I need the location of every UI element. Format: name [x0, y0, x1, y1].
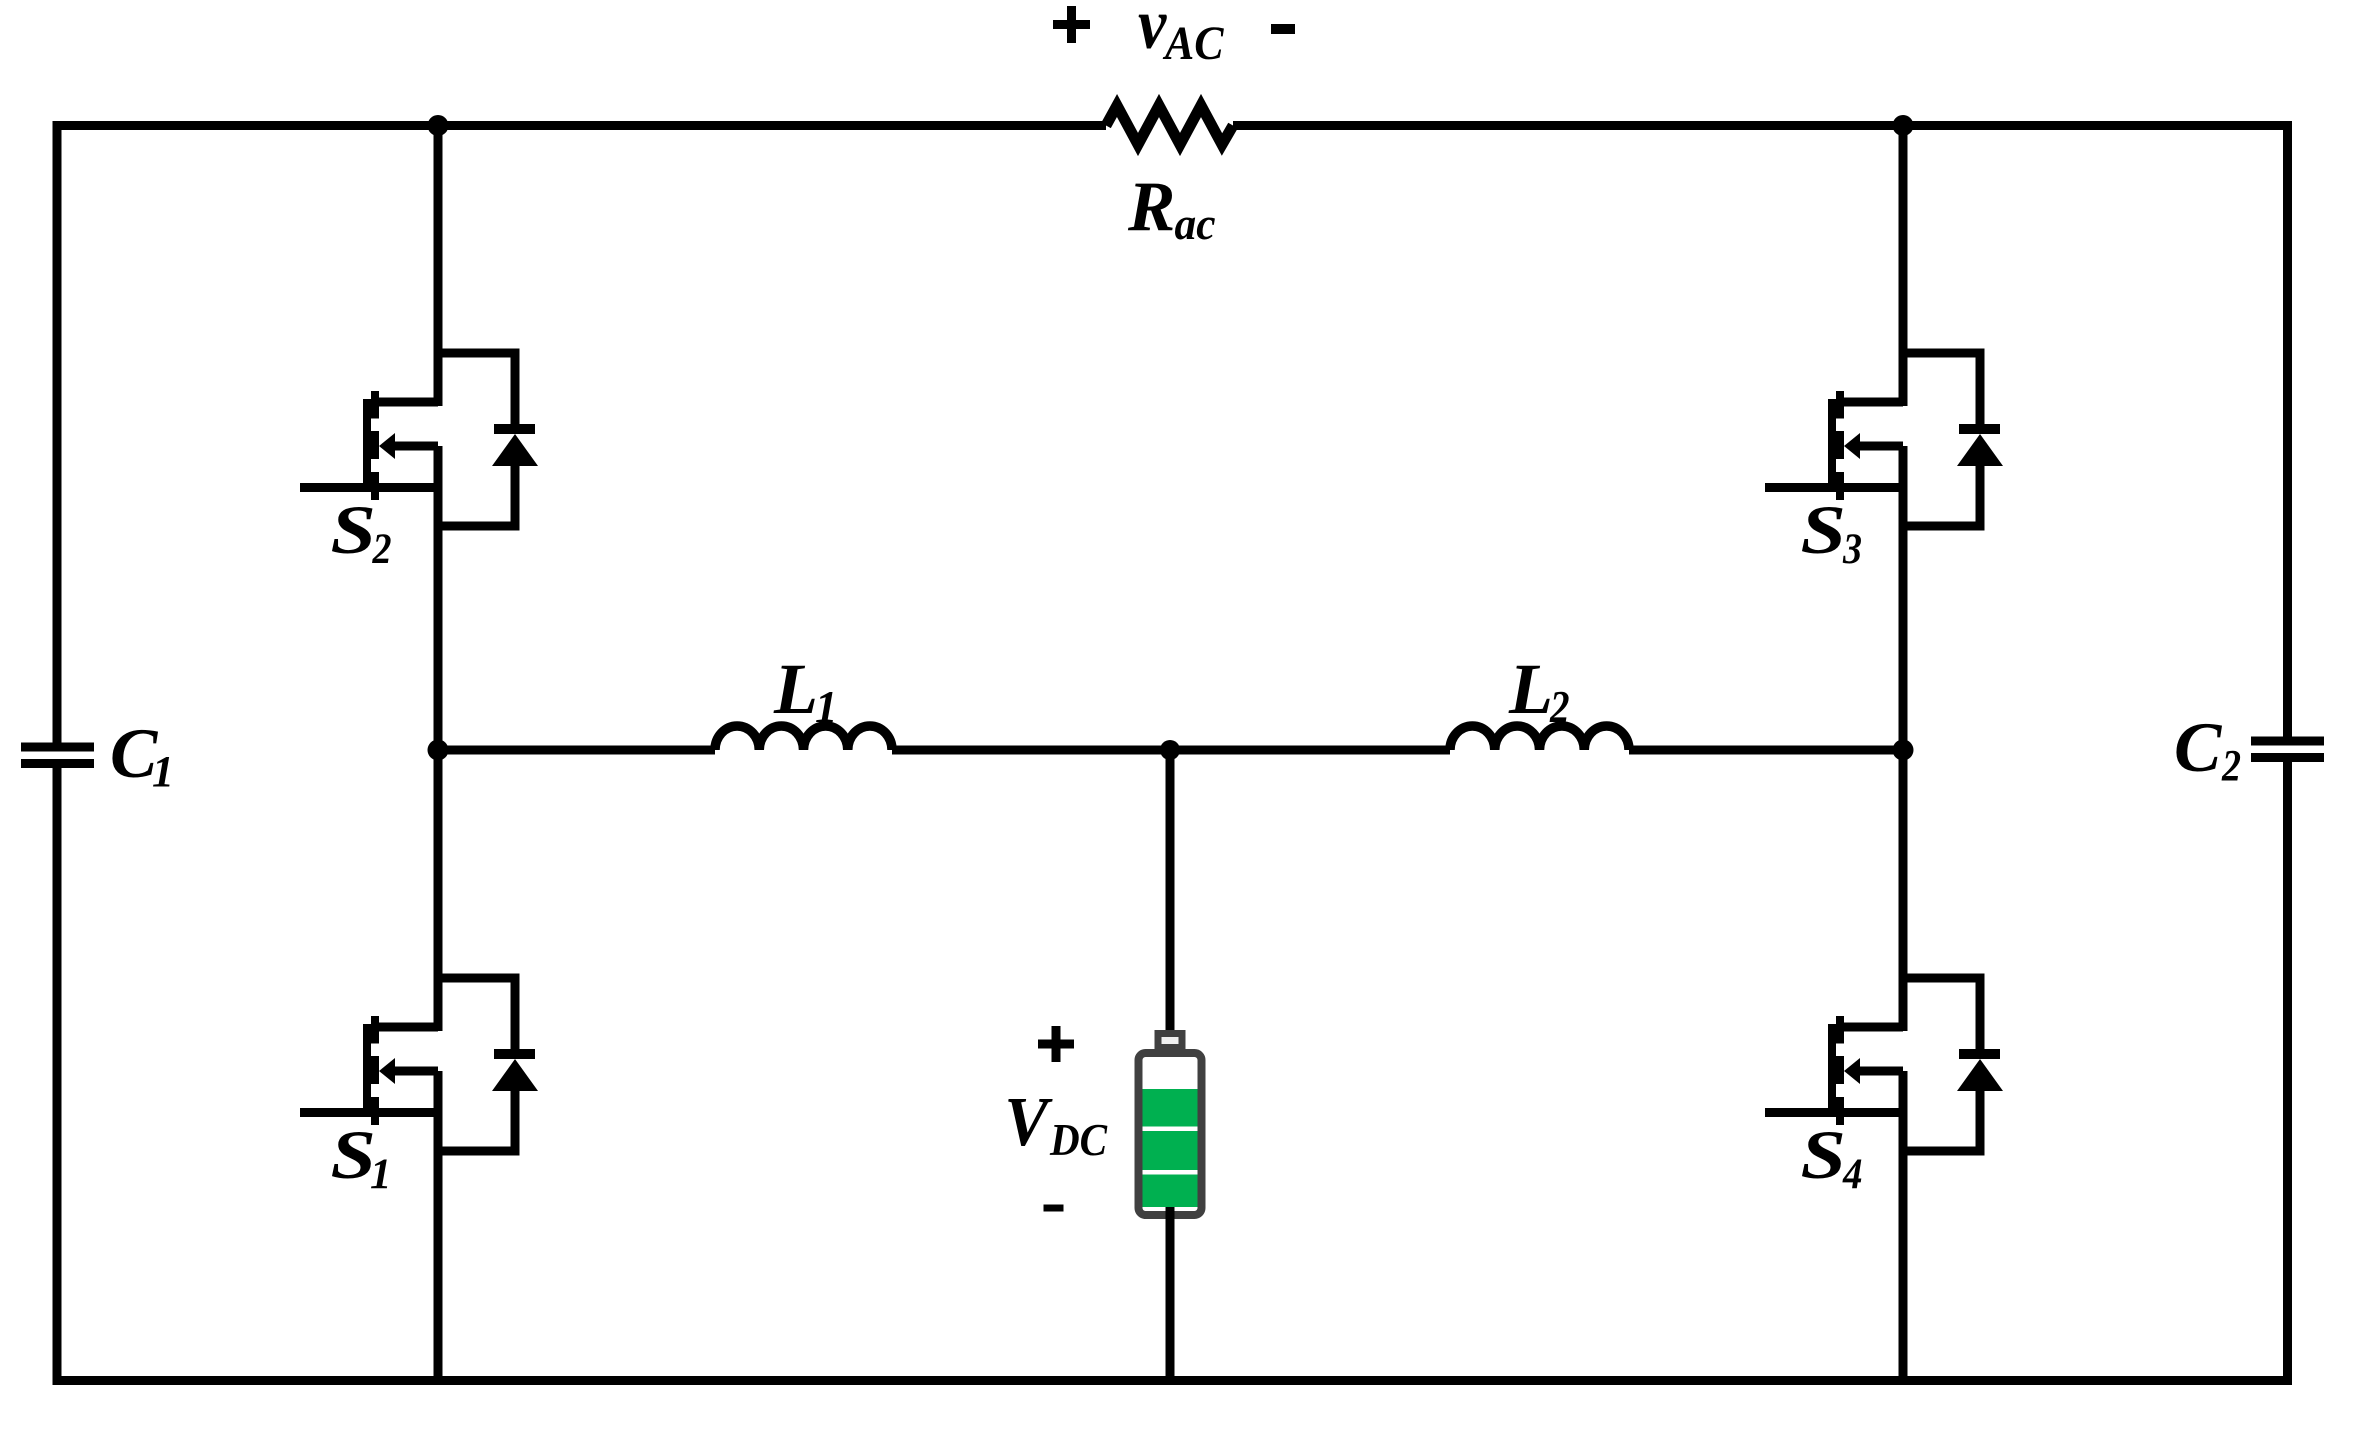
svg-text:3: 3: [1842, 526, 1862, 573]
label S4: [1801, 1117, 1863, 1198]
wire inner-right vertical: S3 source through node B to S4 drain: [1899, 446, 1908, 1031]
svg-text:2: 2: [2221, 741, 2241, 790]
wire inner-left vertical: S2 source through node A to S1 drain: [434, 446, 443, 1031]
transistor S4 MOSFET symbol: channel contact segments: [1836, 1016, 1844, 1125]
node A junction dot (left midpoint): [428, 740, 449, 761]
wire top-right segment (top rail from resistor to right corner): [1233, 121, 2292, 130]
transistor S2 MOSFET symbol: gate lead and source contact lead: [300, 483, 438, 492]
wire middle rail right (from L2 to node B): [1629, 746, 1903, 755]
transistor S4 MOSFET symbol: body lead with arrow: [1844, 1058, 1903, 1113]
node top-left junction dot: [428, 115, 449, 136]
body diode D2 (antiparallel diode: leads, cathode bar, upward triangle): [492, 349, 538, 531]
inductor L1 (four-hump coil on middle rail): [715, 726, 892, 750]
transistor S1 MOSFET symbol: body lead with arrow: [379, 1058, 438, 1113]
label C2: [2174, 709, 2241, 790]
battery VDC terminal nub: [1158, 1034, 1182, 1048]
transistor S1 MOSFET symbol: gate bar: [363, 1024, 371, 1117]
wire right border lower (capacitor C2 down to bottom corner): [2283, 762, 2292, 1385]
label - (vAC negative polarity): [1271, 24, 1295, 34]
transistor S1 MOSFET symbol: drain contact lead: [375, 1023, 438, 1032]
battery VDC body (rounded case): [1139, 1053, 1202, 1215]
svg-text:2: 2: [1549, 682, 1569, 732]
svg-text:1: 1: [152, 747, 174, 796]
transistor S2 MOSFET symbol: body lead with arrow: [379, 433, 438, 488]
transistor S2 MOSFET symbol: drain contact lead: [375, 398, 438, 407]
wire inner-right vertical: top rail to S3 drain: [1899, 126, 1908, 407]
transistor S1 MOSFET symbol: gate lead and source contact lead: [300, 1108, 438, 1117]
svg-text:R: R: [1127, 168, 1175, 246]
svg-text:v: v: [1138, 0, 1167, 64]
wire middle rail left (from node A to inductor L1): [438, 746, 715, 755]
label L2: [1508, 649, 1570, 732]
svg-text:DC: DC: [1049, 1114, 1108, 1165]
wire inner-left vertical: S1 source to bottom rail: [434, 1071, 443, 1381]
transistor S3 MOSFET symbol: body lead with arrow: [1844, 433, 1903, 488]
svg-text:S: S: [331, 492, 376, 568]
label + (vAC positive polarity): [1053, 6, 1090, 43]
transistor S2 MOSFET symbol: gate bar: [363, 399, 371, 492]
wire inner-left vertical: top rail to S2 drain: [434, 126, 443, 407]
svg-text:L: L: [1508, 649, 1553, 729]
wire left border upper (top corner down to capacitor C1): [53, 121, 62, 743]
transistor S3 MOSFET symbol: channel contact segments: [1836, 391, 1844, 500]
svg-text:1: 1: [370, 1151, 392, 1198]
wire S4 drain branch to body diode (top): [1903, 974, 1980, 983]
label L1: [773, 649, 838, 732]
label vAC: [1138, 0, 1224, 70]
body diode D3 (antiparallel diode: leads, cathode bar, upward triangle): [1957, 349, 2003, 531]
svg-text:L: L: [773, 649, 818, 729]
wire inner-right vertical: S4 source to bottom rail: [1899, 1071, 1908, 1381]
transistor S1 MOSFET symbol: channel contact segments: [371, 1016, 379, 1125]
label S2: [331, 492, 392, 573]
wire bottom rail: [53, 1376, 2293, 1385]
label C1: [110, 715, 174, 796]
label Rac: [1127, 168, 1216, 249]
wire left border lower (capacitor C1 down to bottom corner): [53, 768, 62, 1385]
wire battery positive lead (node to battery top): [1166, 750, 1175, 1035]
svg-text:AC: AC: [1162, 17, 1224, 70]
transistor S4 MOSFET symbol: gate bar: [1828, 1024, 1836, 1117]
wire battery negative lead (battery bottom to bottom rail): [1166, 1207, 1175, 1381]
wire top-left segment (top rail from left corner to resistor): [53, 121, 1107, 130]
transistor S4 MOSFET symbol: gate lead and source contact lead: [1765, 1108, 1903, 1117]
svg-text:S: S: [1801, 1117, 1846, 1193]
label VDC: [1004, 1084, 1108, 1165]
svg-text:1: 1: [815, 682, 838, 732]
wire S3 source branch to body diode (bottom): [1903, 522, 1980, 531]
node battery junction dot (middle rail): [1160, 740, 1180, 760]
transistor S3 MOSFET symbol: gate lead and source contact lead: [1765, 483, 1903, 492]
svg-text:C: C: [2174, 709, 2223, 787]
svg-text:S: S: [1801, 492, 1846, 568]
capacitor C2 (right bridge-leg capacitor, two horizontal plates): [2251, 737, 2324, 763]
svg-text:V: V: [1004, 1084, 1053, 1161]
wire S3 drain branch to body diode (top): [1903, 349, 1980, 358]
wire S1 drain branch to body diode (top): [438, 974, 515, 983]
svg-text:ac: ac: [1175, 198, 1216, 249]
label + (battery positive polarity): [1038, 1026, 1074, 1062]
battery VDC green charge cells: [1143, 1089, 1198, 1207]
body diode D1 (antiparallel diode: leads, cathode bar, upward triangle): [492, 974, 538, 1156]
wire S4 source branch to body diode (bottom): [1903, 1147, 1980, 1156]
svg-text:4: 4: [1842, 1151, 1862, 1198]
transistor S3 MOSFET symbol: gate bar: [1828, 399, 1836, 492]
wire S2 drain branch to body diode (top): [438, 349, 515, 358]
transistor S4 MOSFET symbol: drain contact lead: [1840, 1023, 1903, 1032]
svg-text:2: 2: [372, 526, 392, 573]
transistor S3 MOSFET symbol: drain contact lead: [1840, 398, 1903, 407]
label - (battery negative polarity): [1044, 1205, 1064, 1212]
wire S2 source branch to body diode (bottom): [438, 522, 515, 531]
label S1: [331, 1117, 392, 1198]
capacitor C1 (left bridge-leg capacitor, two horizontal plates): [21, 743, 94, 769]
wire S1 source branch to body diode (bottom): [438, 1147, 515, 1156]
resistor Rac (zigzag symbol on top rail): [1106, 106, 1233, 145]
wire right border upper (top corner down to capacitor C2): [2283, 121, 2292, 737]
node top-right junction dot: [1893, 115, 1914, 136]
label S3: [1801, 492, 1863, 573]
node B junction dot (right midpoint): [1893, 740, 1914, 761]
wire middle rail centre (from L1 to battery node to L2): [892, 746, 1450, 755]
transistor S2 MOSFET symbol: channel contact segments: [371, 391, 379, 500]
inductor L2 (four-hump coil on middle rail): [1450, 726, 1629, 750]
body diode D4 (antiparallel diode: leads, cathode bar, upward triangle): [1957, 974, 2003, 1156]
